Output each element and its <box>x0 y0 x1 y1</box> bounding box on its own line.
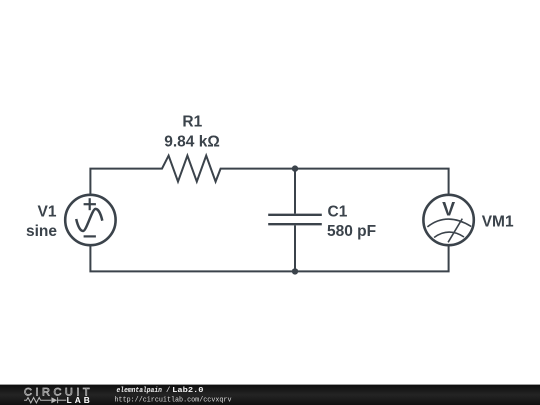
svg-text:VM1: VM1 <box>482 214 514 231</box>
svg-text:LAB: LAB <box>67 395 93 405</box>
svg-text:R1: R1 <box>182 114 202 131</box>
svg-text:V1: V1 <box>38 204 57 221</box>
svg-text:580 pF: 580 pF <box>327 223 376 240</box>
svg-text:http://circuitlab.com/ccvxqrv: http://circuitlab.com/ccvxqrv <box>115 397 233 405</box>
svg-text:C1: C1 <box>328 204 348 221</box>
svg-text:Lab2.0: Lab2.0 <box>172 387 203 395</box>
svg-text:elemntalpain: elemntalpain <box>117 387 163 395</box>
svg-text:9.84 kΩ: 9.84 kΩ <box>164 133 220 150</box>
svg-text:V: V <box>442 198 455 220</box>
svg-text:sine: sine <box>26 223 57 240</box>
svg-text:/: / <box>166 387 170 395</box>
